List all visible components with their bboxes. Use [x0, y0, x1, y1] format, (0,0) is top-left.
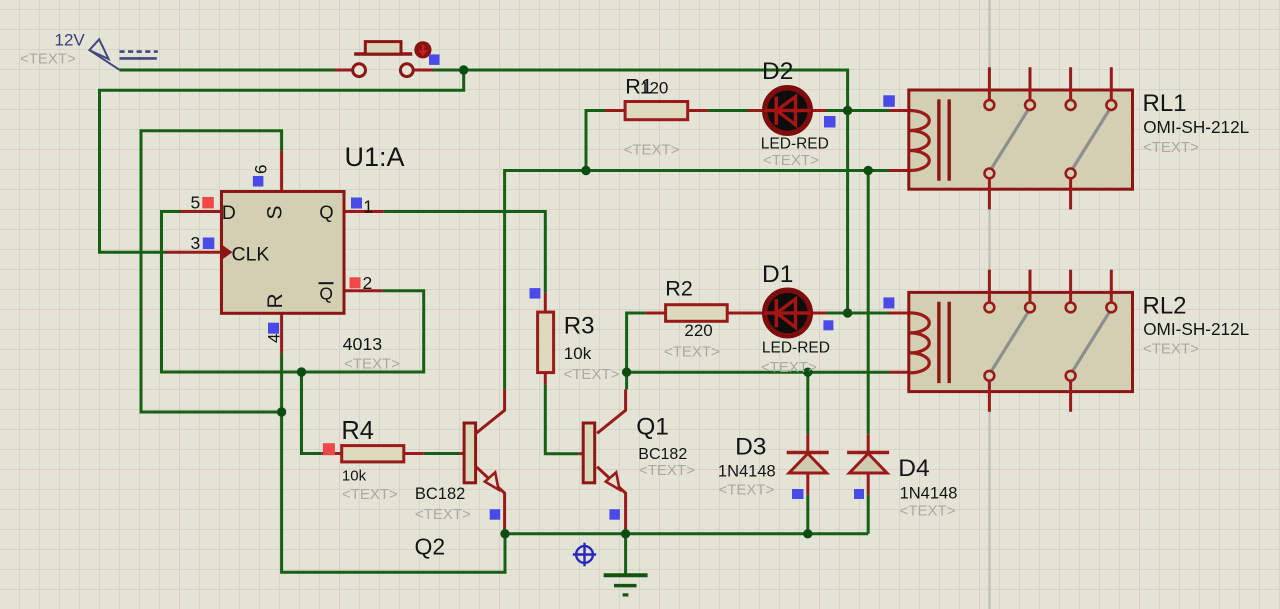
svg-text:220: 220: [684, 321, 712, 340]
svg-text:<TEXT>: <TEXT>: [900, 503, 956, 520]
svg-text:S: S: [264, 205, 287, 219]
svg-text:U1:A: U1:A: [345, 142, 405, 172]
svg-text:3: 3: [191, 233, 201, 253]
svg-text:<TEXT>: <TEXT>: [664, 344, 720, 361]
svg-text:10k: 10k: [564, 344, 592, 363]
svg-text:<TEXT>: <TEXT>: [624, 142, 680, 159]
svg-text:Q: Q: [319, 283, 333, 303]
svg-text:OMI-SH-212L: OMI-SH-212L: [1143, 117, 1249, 137]
svg-text:CLK: CLK: [232, 243, 270, 265]
svg-text:1N4148: 1N4148: [900, 484, 958, 502]
svg-text:<TEXT>: <TEXT>: [342, 486, 398, 503]
svg-text:RL1: RL1: [1143, 90, 1187, 117]
svg-text:OMI-SH-212L: OMI-SH-212L: [1143, 319, 1249, 339]
svg-text:R: R: [264, 293, 287, 308]
svg-text:LED-RED: LED-RED: [761, 136, 829, 153]
svg-text:2: 2: [363, 273, 373, 293]
svg-text:Q2: Q2: [415, 533, 446, 559]
svg-text:D4: D4: [898, 455, 929, 482]
svg-text:D2: D2: [762, 58, 793, 85]
svg-text:4013: 4013: [343, 334, 383, 354]
svg-text:LED-RED: LED-RED: [762, 339, 830, 356]
svg-text:120: 120: [640, 79, 668, 98]
svg-text:<TEXT>: <TEXT>: [1143, 139, 1199, 156]
svg-text:<TEXT>: <TEXT>: [415, 506, 471, 523]
svg-text:<TEXT>: <TEXT>: [20, 51, 76, 68]
svg-text:<TEXT>: <TEXT>: [763, 152, 819, 169]
svg-text:<TEXT>: <TEXT>: [639, 462, 695, 479]
svg-text:R2: R2: [665, 276, 692, 300]
svg-text:10k: 10k: [342, 468, 367, 485]
svg-text:<TEXT>: <TEXT>: [719, 482, 775, 499]
svg-text:D1: D1: [762, 261, 793, 288]
svg-text:1N4148: 1N4148: [718, 462, 776, 480]
svg-text:RL2: RL2: [1143, 292, 1187, 319]
svg-text:<TEXT>: <TEXT>: [564, 366, 620, 383]
svg-text:R3: R3: [564, 313, 595, 340]
svg-text:BC182: BC182: [415, 485, 465, 503]
svg-text:D3: D3: [735, 434, 766, 461]
svg-text:Q1: Q1: [636, 413, 669, 440]
svg-text:<TEXT>: <TEXT>: [761, 359, 817, 376]
svg-text:4: 4: [265, 334, 284, 343]
svg-text:5: 5: [191, 192, 201, 212]
svg-text:12V: 12V: [55, 31, 86, 50]
svg-text:6: 6: [252, 165, 271, 174]
svg-text:D: D: [222, 202, 236, 224]
svg-text:<TEXT>: <TEXT>: [1143, 341, 1199, 358]
svg-text:Q: Q: [319, 202, 333, 223]
svg-text:R4: R4: [341, 417, 374, 445]
svg-text:1: 1: [363, 197, 373, 217]
svg-text:<TEXT>: <TEXT>: [344, 356, 400, 373]
svg-text:BC182: BC182: [638, 446, 687, 463]
